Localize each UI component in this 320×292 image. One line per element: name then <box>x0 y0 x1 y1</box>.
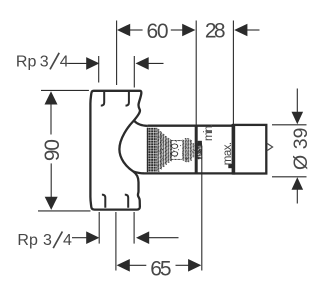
ext line min (top) <box>195 21 197 126</box>
cylinder bottom edge <box>143 172 234 174</box>
svg-text:Ø 39: Ø 39 <box>290 128 312 171</box>
cylinder top edge <box>148 125 234 127</box>
svg-text:3: 3 <box>43 232 52 249</box>
Ø39 upper leader line <box>296 89 298 113</box>
Ø39 top ext line <box>272 124 307 126</box>
dim line 60 left arrow <box>117 24 130 37</box>
leader arrow right (top Rp) <box>86 57 99 70</box>
svg-text:3: 3 <box>40 53 49 70</box>
dim 90 down arrow <box>45 197 58 210</box>
ext line pipe centre (top) <box>116 21 118 86</box>
vertical pipe body outline <box>90 91 141 210</box>
dim 65 left arrow <box>117 259 130 272</box>
svg-text:90: 90 <box>41 139 64 161</box>
dim 90 up arrow <box>45 91 58 104</box>
label Rp 3/4 bottom <box>17 232 72 250</box>
cartridge cone (stippled) <box>157 129 202 172</box>
dim 28 outer arrow right <box>234 24 247 37</box>
label Rp 3/4 top <box>16 53 69 71</box>
svg-text:min.: min. <box>203 124 215 141</box>
thread bore line right (bottom) <box>133 212 135 244</box>
dim line 60 right arrow <box>182 24 195 37</box>
thread hook top-right <box>126 92 129 106</box>
Ø39 bottom ext line <box>272 176 307 178</box>
dim 65 right arrow <box>188 259 201 272</box>
max marker tick (filled) <box>228 164 233 168</box>
thread bore line right (top) <box>133 56 135 88</box>
V-notch bottom fillet (waist to cylinder bottom) <box>133 171 143 173</box>
leader dash bottom <box>72 237 88 239</box>
thread hook bottom-left <box>102 195 105 208</box>
V-notch top arm (pipe to cylinder top) <box>134 121 148 126</box>
thread bore line left (top) <box>98 56 100 83</box>
svg-text:4: 4 <box>63 232 72 249</box>
ext line 65 right <box>201 146 203 271</box>
hatched cartridge base block <box>147 128 157 172</box>
svg-text:Rp: Rp <box>17 232 38 249</box>
ext line 90 top <box>41 89 89 91</box>
counter arrow left-pointing (top Rp) <box>136 57 149 70</box>
Ø39 down arrow <box>292 112 304 125</box>
max plaster line (thick, cap left edge) <box>232 124 236 175</box>
Ø39 lower leader line <box>296 189 298 204</box>
min marker tick (filled) <box>198 141 202 146</box>
svg-text:Rp: Rp <box>16 53 37 70</box>
svg-text:65: 65 <box>150 258 171 281</box>
svg-text:4: 4 <box>60 53 69 70</box>
svg-text:60: 60 <box>147 20 169 43</box>
svg-text:max.: max. <box>222 142 234 165</box>
pipe centre ext line (bottom) <box>115 212 117 271</box>
thread hook top-left <box>101 92 104 106</box>
svg-text:28: 28 <box>205 19 226 42</box>
ext line 90 bottom <box>38 210 91 212</box>
thread bore line left (bottom) <box>98 212 100 244</box>
ext line max (top) <box>232 21 234 125</box>
cap rectangle at right end <box>233 125 266 174</box>
min plaster line (thick) <box>195 125 198 175</box>
Ø39 up arrow <box>292 177 304 190</box>
leader arrow right (bottom Rp) <box>86 231 99 244</box>
thread hook bottom-right <box>125 195 128 208</box>
leader dash top <box>68 62 88 64</box>
counter arrow left-pointing (bottom Rp) <box>136 231 149 244</box>
spindle marker triangle on cap <box>267 143 273 151</box>
